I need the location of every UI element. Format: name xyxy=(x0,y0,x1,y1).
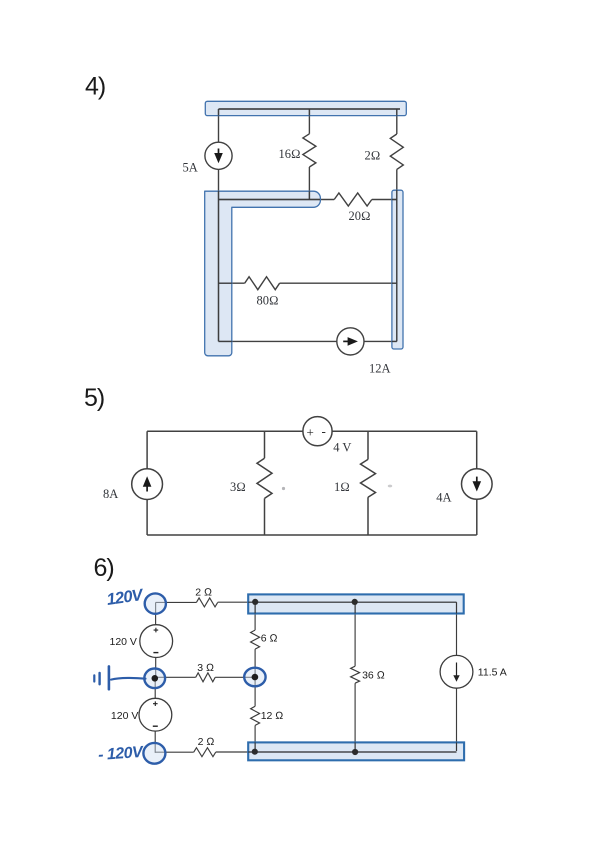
svg-text:6 Ω: 6 Ω xyxy=(261,633,278,645)
wire bottom rail left segment xyxy=(219,340,337,342)
junction dot bottom bar left (12-ohm) xyxy=(252,749,258,755)
wire -120V node to bottom 2-ohm xyxy=(155,751,194,753)
resistor 3Ω xyxy=(257,458,272,498)
svg-text:8A: 8A xyxy=(103,487,118,501)
svg-text:12A: 12A xyxy=(369,362,391,376)
wire left vertical (over highlight) xyxy=(218,191,220,341)
svg-text:6): 6) xyxy=(94,554,114,582)
junction dot top bar right (36-ohm) xyxy=(352,599,358,605)
wire stubs crossing bus bars (over bars) xyxy=(255,602,456,752)
svg-text:5A: 5A xyxy=(183,161,198,175)
wire right vertical (2-ohm down to bottom rail) xyxy=(396,169,398,341)
annotation: circled node 0V / ground (hand-drawn) xyxy=(144,669,165,689)
resistor 2Ω (P4) xyxy=(390,134,403,169)
svg-text:120 V: 120 V xyxy=(111,710,138,722)
highlighter stroke: right node bar P4 xyxy=(392,190,403,349)
wire 16-ohm branch top lead xyxy=(308,109,310,134)
wire bottom source to -120V node xyxy=(154,731,156,753)
wire top rail P5 left of 4V source xyxy=(147,430,303,432)
wire right vertical (over highlight) xyxy=(396,190,398,341)
wire 80-ohm rail right segment xyxy=(280,282,397,284)
wire center node to 12-ohm xyxy=(254,680,256,706)
svg-text:4 V: 4 V xyxy=(333,441,351,455)
svg-text:20Ω: 20Ω xyxy=(349,209,371,223)
annotation: circled node -120V (hand-drawn) xyxy=(143,743,165,764)
current source 5A xyxy=(205,142,232,169)
wire 6-ohm branch top lead xyxy=(254,602,256,630)
svg-text:3 Ω: 3 Ω xyxy=(197,662,214,674)
highlighter bus bar: bottom node P6 xyxy=(248,742,464,760)
voltage source 120V bottom xyxy=(139,698,172,731)
svg-text:4A: 4A xyxy=(436,491,451,505)
svg-text:1Ω: 1Ω xyxy=(334,480,350,494)
svg-text:120V: 120V xyxy=(106,586,146,609)
junction dot bottom bar right (36-ohm) xyxy=(352,749,358,755)
scan smudge speck P5 right xyxy=(388,485,392,488)
wire bottom rail P6 (over bus bar) xyxy=(248,751,456,753)
wire right edge bottom lead P5 xyxy=(476,499,478,535)
wire top source to middle node xyxy=(155,658,157,679)
resistor 2Ω bottom (P6) xyxy=(194,748,216,757)
svg-text:-: - xyxy=(322,424,326,439)
wire bottom rail P5 xyxy=(147,534,477,536)
highlighter stroke: top node bar P4 xyxy=(205,101,406,115)
resistor 3Ω (P6) xyxy=(196,673,216,682)
wire middle rail right segment xyxy=(372,199,397,201)
svg-text:80Ω: 80Ω xyxy=(257,294,279,308)
svg-text:12 Ω: 12 Ω xyxy=(261,710,284,722)
wire top rail P6 (over bus bar) xyxy=(248,601,456,603)
svg-text:3Ω: 3Ω xyxy=(230,480,246,494)
wire 11.5A branch top lead xyxy=(456,602,458,655)
wire left branch from top rail to 5A source xyxy=(218,109,220,142)
wire left edge top lead P5 xyxy=(146,431,148,468)
annotation: circled center node (hand-drawn) xyxy=(244,668,265,687)
current source 12A xyxy=(337,328,364,355)
svg-text:5): 5) xyxy=(84,384,104,412)
resistor 80Ω xyxy=(245,277,280,290)
resistor 16Ω xyxy=(303,134,316,167)
wire 80-ohm rail left lead xyxy=(219,282,245,284)
wire 6-ohm to center node xyxy=(254,649,256,674)
wire right edge top lead P5 xyxy=(476,431,478,468)
resistor 2Ω top (P6) xyxy=(196,598,217,607)
wire left edge bottom lead P5 xyxy=(146,500,148,536)
annotation: ground symbol (hand-drawn) xyxy=(111,678,146,680)
wire bottom rail right segment xyxy=(364,340,397,342)
current source 11.5A xyxy=(440,655,473,688)
wire 1-ohm branch bottom lead xyxy=(367,497,369,535)
resistor 6Ω xyxy=(251,630,260,649)
svg-text:120 V: 120 V xyxy=(110,636,137,648)
wire 3-ohm to center node xyxy=(215,676,255,678)
junction dot center node (6/12/3 ohm) xyxy=(252,674,259,681)
annotation: circled node +120V (hand-drawn) xyxy=(145,593,166,613)
wire +120V node down to top 120V source xyxy=(155,602,157,624)
wire middle rail left segment xyxy=(219,199,335,201)
svg-text:2 Ω: 2 Ω xyxy=(195,587,212,599)
wire middle rail (over highlight) xyxy=(219,199,321,201)
wire top rail P4 xyxy=(219,108,401,110)
wire stubs crossing highlights (over highlight) xyxy=(219,109,397,341)
wire bottom rail P6 (through highlighted bus bar) xyxy=(216,751,457,753)
svg-text:+: + xyxy=(307,425,314,440)
junction dot middle-left node xyxy=(152,675,159,682)
wire middle node to 3-ohm xyxy=(155,676,196,678)
wire 36-ohm branch top lead xyxy=(354,602,356,666)
svg-text:- 120V: - 120V xyxy=(98,744,145,764)
highlighter bus bar: top node P6 xyxy=(248,594,464,613)
wire top rail P4 (over highlight) xyxy=(219,108,401,110)
resistor 36Ω xyxy=(351,666,360,683)
current source 4A xyxy=(462,469,493,500)
resistor 12Ω xyxy=(251,706,260,725)
scan smudge speck P5 left xyxy=(282,487,285,490)
wire 16-ohm branch bottom lead xyxy=(308,167,310,200)
wire 12-ohm to bottom rail xyxy=(254,725,256,751)
wire 3-ohm branch bottom lead xyxy=(264,498,266,535)
wire from +120V node to top 2-ohm xyxy=(156,601,197,603)
wire 2-ohm branch top lead xyxy=(396,109,398,134)
svg-text:4): 4) xyxy=(85,73,105,101)
wire top rail P6 (through highlighted bus bar) xyxy=(218,601,457,603)
wire 3-ohm branch top lead xyxy=(264,431,266,458)
junction dot top bar left (6-ohm) xyxy=(252,599,258,605)
wire top rail P5 right of 4V source xyxy=(332,430,477,432)
current source 8A xyxy=(132,469,163,500)
svg-text:16Ω: 16Ω xyxy=(279,147,301,161)
wire 1-ohm branch top lead xyxy=(367,431,369,459)
wire middle node down to bottom 120V source xyxy=(154,678,156,698)
resistor 1Ω xyxy=(361,459,376,497)
wire 11.5A to bottom rail xyxy=(456,688,458,751)
highlighter stroke: L-shaped node (middle rail + left vertical) P4 xyxy=(205,191,321,356)
svg-text:2 Ω: 2 Ω xyxy=(198,736,215,748)
resistor 20Ω xyxy=(334,193,372,206)
voltage source 120V top xyxy=(140,625,173,658)
svg-text:36 Ω: 36 Ω xyxy=(362,669,385,681)
wire left vertical (5A source down to bottom rail) xyxy=(218,169,220,341)
voltage source 4V xyxy=(303,417,332,446)
svg-text:11.5 A: 11.5 A xyxy=(478,667,507,679)
svg-text:2Ω: 2Ω xyxy=(365,149,381,163)
wire 36-ohm to bottom rail xyxy=(354,683,356,752)
